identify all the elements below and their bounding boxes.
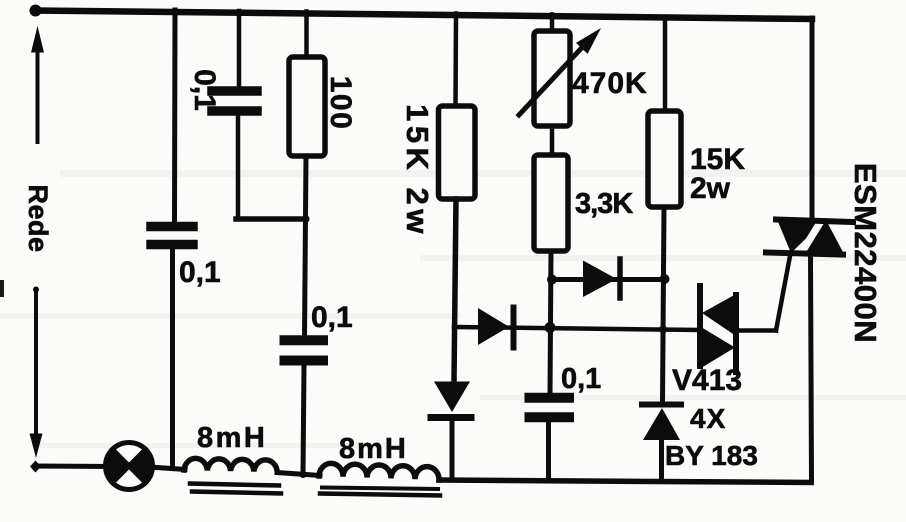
inductor CH1 8mH — [184, 458, 281, 493]
wire branch3 upper — [304, 12, 309, 59]
wire bottom rail between chokes — [277, 473, 320, 476]
wire branch3 lower — [303, 366, 304, 475]
node junction main wire — [545, 322, 556, 333]
resistor R2 15K 2w (left) — [439, 106, 476, 199]
node junction branch6/main wire — [659, 326, 667, 334]
svg-text:3,3K: 3,3K — [575, 188, 633, 220]
node junction upper diode wire — [547, 275, 557, 285]
wire branch4 middle — [454, 199, 456, 381]
potentiometer P1 470K — [519, 28, 601, 126]
node top-left terminal — [30, 5, 42, 17]
wire branch2 horizontal to branch3 — [236, 216, 306, 222]
wire branch2 lower — [236, 115, 241, 219]
wire bottom rail right segment — [439, 480, 811, 483]
wire branch1 upper — [172, 10, 178, 222]
diode D1 (branch4 down) — [431, 382, 471, 418]
wire branch4 lower — [450, 421, 455, 480]
wire bottom rail lamp to choke1 — [150, 467, 185, 470]
capacitor C4 0,1 — [530, 398, 570, 418]
wire branch6 upper — [663, 17, 668, 112]
diode D3 (upper row, pointing right) — [583, 259, 620, 298]
wire top rail — [35, 11, 812, 20]
triac Q1 ESM22400N — [766, 216, 853, 257]
resistor R3 3,3K — [534, 155, 568, 251]
wire triac top lead — [810, 18, 815, 220]
svg-text:0,1: 0,1 — [561, 363, 601, 395]
node junction branch2/branch3 — [303, 216, 310, 223]
wire diac to gate corner — [738, 328, 776, 333]
diode D4 (branch6, pointing up) — [642, 405, 681, 441]
wire branch2 upper — [237, 11, 242, 88]
wire branch6 middle — [663, 207, 665, 402]
resistor R4 15K 2w (right) — [648, 111, 681, 207]
svg-text:0,1: 0,1 — [188, 69, 221, 111]
node junction branch3/bottom rail — [300, 471, 307, 478]
svg-text:8mH: 8mH — [197, 422, 267, 454]
lamp L1 — [106, 443, 153, 490]
arrow up (Rede top) — [31, 26, 44, 142]
resistor R1 100 — [289, 57, 325, 156]
svg-text:0,1: 0,1 — [179, 256, 221, 289]
wire branch4 upper — [453, 14, 458, 108]
diac V413 — [699, 286, 739, 372]
capacitor C1 0,1 (left branch) — [151, 227, 193, 245]
svg-text:470K: 470K — [572, 67, 648, 100]
node bottom-left terminal — [30, 461, 41, 473]
wire branch3 middle — [305, 156, 307, 338]
svg-text:BY 183: BY 183 — [665, 440, 758, 471]
left edge scan mark — [0, 280, 4, 297]
svg-text:V413: V413 — [672, 364, 742, 397]
wire branch5 mid2 — [550, 251, 551, 394]
svg-text:100: 100 — [324, 76, 357, 131]
wire main horizontal (to diac) — [454, 327, 699, 330]
wire upper diode row — [551, 277, 665, 282]
inductor CH2 8mH — [319, 463, 440, 495]
node junction upper row right — [660, 274, 670, 284]
wire branch5 mid1 — [550, 126, 555, 156]
wire branch5 top — [550, 15, 555, 33]
svg-text:2w: 2w — [690, 172, 731, 205]
capacitor C2 0,1 (second branch) — [212, 91, 257, 111]
svg-text:Rede: Rede — [23, 184, 53, 252]
svg-text:15K 2w: 15K 2w — [400, 104, 435, 238]
wire branch1 lower — [170, 249, 175, 466]
arrow down (Rede bottom) — [30, 287, 43, 459]
svg-text:8mH: 8mH — [339, 433, 408, 465]
svg-text:ESM22400N: ESM22400N — [848, 163, 883, 343]
diode D2 (on main wire, pointing right) — [478, 308, 514, 348]
wire branch5 lower — [546, 422, 551, 479]
wire branch6 lower — [659, 440, 664, 481]
svg-text:4X: 4X — [690, 403, 726, 434]
svg-text:0,1: 0,1 — [311, 301, 353, 334]
wire triac bottom lead — [811, 254, 812, 482]
wire gate diagonal — [776, 256, 790, 331]
wire bottom rail left segment — [35, 464, 112, 470]
capacitor C3 0,1 (middle) — [285, 340, 324, 360]
